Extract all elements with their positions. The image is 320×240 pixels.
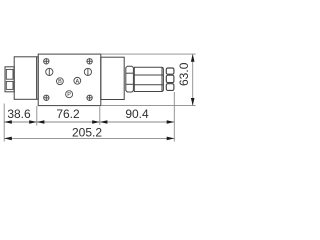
- hex nut: [126, 66, 134, 92]
- svg-text:38.6: 38.6: [7, 107, 31, 121]
- arrow row1 right-in at 36.8: [29, 120, 37, 124]
- connector inner top window: [6, 69, 13, 79]
- port A: [74, 77, 81, 84]
- dimension line row2: [4, 137, 174, 139]
- arrow row1 left-out at 4.2: [4, 120, 12, 124]
- hex end cap top facet: [166, 68, 174, 74]
- mounting hole bottom-right: [87, 95, 92, 100]
- port hole right: [84, 68, 91, 75]
- port B: [57, 78, 64, 85]
- svg-text:63.0: 63.0: [177, 62, 191, 86]
- port hole left: [46, 68, 53, 75]
- arrow vertical bottom: [191, 98, 195, 106]
- svg-text:76.2: 76.2: [56, 107, 80, 121]
- hex body flat line lower: [134, 84, 163, 86]
- mounting plate: [38, 54, 101, 106]
- svg-text:A: A: [75, 79, 79, 85]
- arrow row2 right at 174.3: [167, 137, 175, 141]
- hex end cap middle facet: [166, 75, 174, 82]
- connector inner bottom window: [6, 81, 13, 89]
- arrow row1 left-in at 99.8: [100, 120, 108, 124]
- hex nut flat line upper: [126, 72, 134, 74]
- valve body: [101, 57, 124, 99]
- arrow row2 left at 4.2: [4, 137, 12, 141]
- dimension line row1: [4, 121, 174, 123]
- extension line x=36.8: [36, 106, 38, 126]
- mounting hole top-right: [87, 59, 92, 64]
- hex body cylinder: [134, 67, 163, 91]
- port P: [66, 91, 73, 98]
- dimension line vertical 63.0: [192, 54, 194, 106]
- arrow vertical top: [191, 54, 195, 62]
- extension line x=99.8: [99, 107, 101, 126]
- hex nut flat line lower: [126, 83, 134, 85]
- extension line bottom y=105.6: [101, 105, 196, 107]
- hex body flat line upper: [134, 74, 163, 76]
- arrow row1 right-in at 99.8: [92, 120, 100, 124]
- solenoid/plate joint line: [36, 57, 38, 100]
- connector bump: [5, 67, 14, 92]
- svg-text:205.2: 205.2: [72, 125, 102, 139]
- hex end cap bottom facet: [166, 84, 174, 91]
- svg-text:B: B: [58, 79, 62, 85]
- hex body right inner edge: [161, 67, 163, 91]
- svg-text:90.4: 90.4: [125, 107, 149, 121]
- mounting hole top-left: [44, 59, 49, 64]
- extension line right x=174.3: [173, 92, 175, 142]
- arrow row1 left-in at 36.8: [37, 120, 45, 124]
- arrow row1 right-out at 174.3: [167, 120, 175, 124]
- solenoid block: [14, 57, 38, 100]
- extension line left x=4.2: [3, 104, 5, 142]
- extension line top y=54.1: [101, 53, 196, 55]
- mounting hole bottom-left: [44, 95, 49, 100]
- svg-text:P: P: [67, 92, 71, 98]
